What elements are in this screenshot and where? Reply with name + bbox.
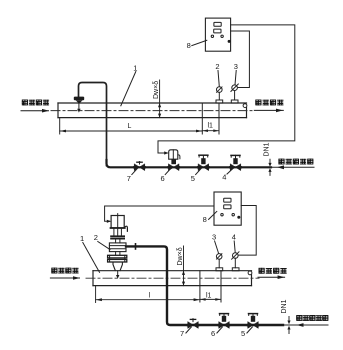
- dimension l (bottom): [96, 286, 200, 303]
- gate valve V7b (bottom): [186, 318, 199, 328]
- wire controller to actuator (top): [158, 25, 295, 153]
- controller knob 1 (top): [211, 35, 213, 37]
- controller display 1 (bottom): [224, 198, 231, 202]
- svg-text:l1: l1: [208, 123, 214, 130]
- dimension Dw x delta (top): [159, 80, 161, 118]
- valve yoke (bottom): [114, 228, 122, 236]
- steam outlet label (bottom): [259, 268, 286, 273]
- svg-text:4: 4: [232, 233, 236, 242]
- pipe end cap circle (top): [243, 104, 247, 108]
- svg-text:3: 3: [234, 62, 238, 71]
- water inlet label (bottom): [297, 316, 328, 321]
- positioner hook (bottom): [125, 226, 127, 231]
- spray nozzle N1 (top): [74, 97, 84, 104]
- pipe centerline (top): [51, 110, 254, 112]
- controller knob 1 (bottom): [221, 214, 223, 216]
- globe valve V4 (top): [229, 155, 242, 170]
- sensor TE3b (bottom): [216, 254, 223, 271]
- svg-text:3: 3: [212, 233, 216, 242]
- svg-text:DN1: DN1: [264, 142, 271, 156]
- wire controller to sensor TE3 (top): [231, 31, 250, 88]
- svg-text:5: 5: [191, 174, 195, 183]
- svg-text:7: 7: [180, 329, 184, 338]
- spray control valve assembly (bottom): actuator A2: [111, 214, 125, 228]
- water inlet label (top): [279, 159, 313, 164]
- wire controller to sensor TE4 (bottom): [239, 206, 257, 256]
- svg-text:6: 6: [161, 174, 165, 183]
- controller display 1 (top): [214, 22, 221, 26]
- dimension Dw x delta (bottom): [183, 246, 185, 286]
- svg-text:Dw×δ: Dw×δ: [177, 247, 184, 265]
- steam pipe P2 (bottom): [93, 271, 252, 286]
- gate valve V7 (top): [133, 161, 146, 171]
- svg-text:Dw×δ: Dw×δ: [153, 81, 160, 99]
- svg-text:6: 6: [211, 329, 215, 338]
- controller knob 2 (top): [221, 35, 223, 37]
- valve stem (bottom): [116, 240, 120, 243]
- sensor TE4 (bottom): [232, 252, 239, 271]
- controller U8b (bottom): [214, 192, 241, 225]
- globe valve V6b (bottom): [217, 314, 230, 329]
- controller knob 2 (bottom): [232, 214, 234, 216]
- svg-text:DN1: DN1: [281, 299, 288, 313]
- valve body B2 (bottom): [109, 243, 126, 252]
- globe valve V5b (bottom): [246, 314, 259, 329]
- wire controller to actuator (bottom): [105, 206, 214, 221]
- svg-text:8: 8: [187, 41, 191, 50]
- pipe centerline (bottom): [86, 277, 259, 279]
- weld joint W1 (top): [201, 103, 203, 134]
- svg-text:5: 5: [241, 329, 245, 338]
- weld joint W4 (bottom): [220, 271, 222, 302]
- nozzle taper into pipe (bottom): [113, 262, 122, 270]
- thin water line extension (bottom): [283, 324, 328, 326]
- weld joint W3 (bottom): [199, 271, 201, 302]
- upper flange (bottom, black): [110, 235, 125, 239]
- svg-text:L: L: [128, 123, 132, 130]
- dimension l1 (top): [203, 129, 209, 132]
- svg-text:1: 1: [80, 234, 84, 243]
- svg-text:7: 7: [127, 174, 131, 183]
- spray arrow inside pipe (bottom): [117, 271, 119, 276]
- svg-text:8: 8: [203, 215, 207, 224]
- sensor TE2 (top): [216, 87, 223, 103]
- control valve V6 (top): [167, 159, 180, 170]
- mounting flange pair (bottom): [108, 255, 127, 262]
- steam inlet label (top): [22, 100, 48, 105]
- dimension l1 (bottom): [200, 298, 206, 301]
- water line thin extension under inlet label (top): [271, 166, 314, 168]
- svg-text:2: 2: [94, 233, 98, 242]
- controller U8 (top): [205, 18, 230, 51]
- DN1 dimension marker (top): [269, 159, 271, 175]
- union tick on water pipe (bottom): [135, 244, 137, 249]
- spray lance + arrow inside pipe (top): [78, 103, 80, 109]
- dimension L (top): [60, 118, 203, 134]
- water inlet arrow (top): [277, 165, 284, 169]
- svg-text:4: 4: [222, 173, 226, 182]
- lower stem (bottom): [116, 252, 120, 256]
- globe valve V5 (top): [197, 155, 210, 170]
- controller terminal dot (bottom): [237, 216, 240, 219]
- water inlet arrow (bottom): [297, 323, 304, 327]
- svg-text:1: 1: [133, 63, 137, 72]
- controller terminal dot (top): [228, 40, 231, 43]
- spray water U-pipe (top): [79, 83, 107, 166]
- svg-text:l1: l1: [206, 293, 212, 300]
- desuperheating water line (top): [107, 160, 272, 167]
- steam inlet label (bottom): [52, 268, 78, 273]
- pipe end cap circle (bottom): [248, 271, 252, 275]
- thick water pipe (bottom): [126, 246, 283, 325]
- sensor TE3 (top): [231, 84, 238, 103]
- steam pipe P1 (top): [58, 103, 247, 118]
- controller display 2 (top): [214, 29, 221, 33]
- DN1 dimension marker (bottom): [288, 317, 290, 334]
- svg-text:l: l: [149, 292, 151, 299]
- steam outlet label (top): [256, 100, 283, 105]
- actuator A6 (top): [169, 150, 180, 159]
- svg-text:2: 2: [215, 62, 219, 71]
- controller display 2 (bottom): [224, 205, 231, 209]
- weld joint W2 (top): [218, 103, 220, 134]
